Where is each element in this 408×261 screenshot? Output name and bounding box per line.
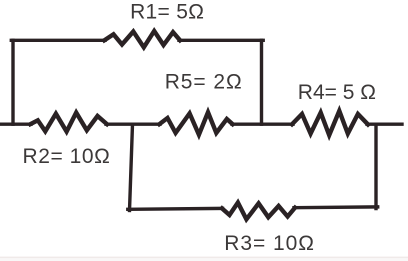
svg-text:R1= 5Ω: R1= 5Ω bbox=[130, 0, 204, 23]
svg-text:R4= 5 Ω: R4= 5 Ω bbox=[298, 81, 376, 104]
svg-text:R3= 10Ω: R3= 10Ω bbox=[224, 232, 315, 255]
svg-text:R5= 2Ω: R5= 2Ω bbox=[165, 70, 243, 93]
svg-text:R2= 10Ω: R2= 10Ω bbox=[23, 145, 111, 168]
